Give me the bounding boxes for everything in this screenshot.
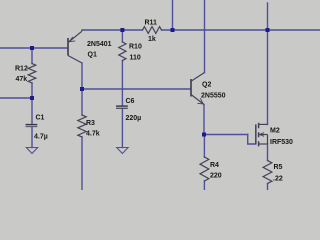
wire C1 bottom lead <box>31 127 33 148</box>
wire R4 top lead <box>203 135 205 158</box>
wire R12 bottom lead <box>31 83 33 98</box>
resistor R10 <box>119 42 126 61</box>
wire Q2 collector riser <box>204 0 206 73</box>
svg-text:110: 110 <box>130 55 141 62</box>
wire lower-left <box>0 97 32 99</box>
svg-text:R3: R3 <box>86 120 95 127</box>
svg-text:47k: 47k <box>16 76 28 83</box>
node rail/stub <box>171 28 175 32</box>
svg-text:R12: R12 <box>15 66 28 73</box>
svg-text:Q1: Q1 <box>88 52 97 59</box>
resistor R11 <box>143 27 162 34</box>
resistor R12 <box>28 64 36 84</box>
wire R5 bottom lead <box>267 184 269 191</box>
resistor R4 <box>200 157 209 181</box>
ground below C1 <box>26 148 37 154</box>
svg-text:1k: 1k <box>148 36 156 43</box>
wire Q1 collector vertical <box>81 63 83 89</box>
wire R3 top lead <box>81 89 83 115</box>
svg-text:.22: .22 <box>273 176 283 183</box>
wire C1 top lead <box>31 98 33 124</box>
wire gate feed <box>204 134 248 136</box>
node R12/C1 <box>30 96 34 100</box>
wire R10 bottom lead through bus <box>121 61 123 106</box>
wire R3 bottom lead <box>81 137 83 190</box>
wire R12 top lead <box>31 48 33 64</box>
resistor R5 <box>263 161 272 184</box>
wire M2 source lead <box>267 144 269 161</box>
wire M2 drain riser <box>267 3 269 124</box>
svg-text:C1: C1 <box>36 114 45 121</box>
wire Q2 emitter lead <box>203 105 205 135</box>
svg-text:Q2: Q2 <box>202 82 211 89</box>
wire bus Q1 to Q2 <box>82 88 191 90</box>
capacitor C6 <box>116 106 128 108</box>
svg-text:R10: R10 <box>129 44 142 51</box>
wire input <box>0 47 68 49</box>
svg-text:220: 220 <box>210 172 222 179</box>
svg-text:IRF530: IRF530 <box>270 139 293 146</box>
wire R4 bottom lead <box>203 181 205 190</box>
svg-text:2N5550: 2N5550 <box>201 92 226 99</box>
node input/R12 <box>30 46 34 50</box>
node rail/M2 drain <box>266 28 270 32</box>
wire gate L-route <box>248 135 256 145</box>
transistor Q1 <box>68 30 82 63</box>
resistor R3 <box>78 115 86 137</box>
wire C6 bottom lead <box>121 109 123 148</box>
svg-text:220µ: 220µ <box>126 115 142 122</box>
ground below C6 <box>117 148 128 154</box>
node rail/R10 <box>120 28 124 32</box>
node Q1 collector/bus <box>80 87 84 91</box>
wire top stub at x=172 <box>172 0 174 30</box>
wire top rail right segment <box>162 29 320 31</box>
svg-text:R4: R4 <box>210 162 219 169</box>
capacitor C1 <box>26 125 38 127</box>
wire R10 top lead <box>121 30 123 42</box>
svg-text:M2: M2 <box>270 128 280 135</box>
svg-text:C6: C6 <box>126 98 135 105</box>
transistor Q2 <box>191 73 205 105</box>
svg-text:R5: R5 <box>274 164 283 171</box>
svg-text:4.7k: 4.7k <box>86 131 100 138</box>
wire top rail left segment <box>82 29 143 31</box>
svg-text:2N5401: 2N5401 <box>87 41 112 48</box>
mosfet M2 <box>256 123 268 147</box>
node Q2 emitter/gate/R4 <box>202 133 206 137</box>
svg-text:R11: R11 <box>145 20 158 27</box>
svg-text:4.7µ: 4.7µ <box>34 134 48 141</box>
